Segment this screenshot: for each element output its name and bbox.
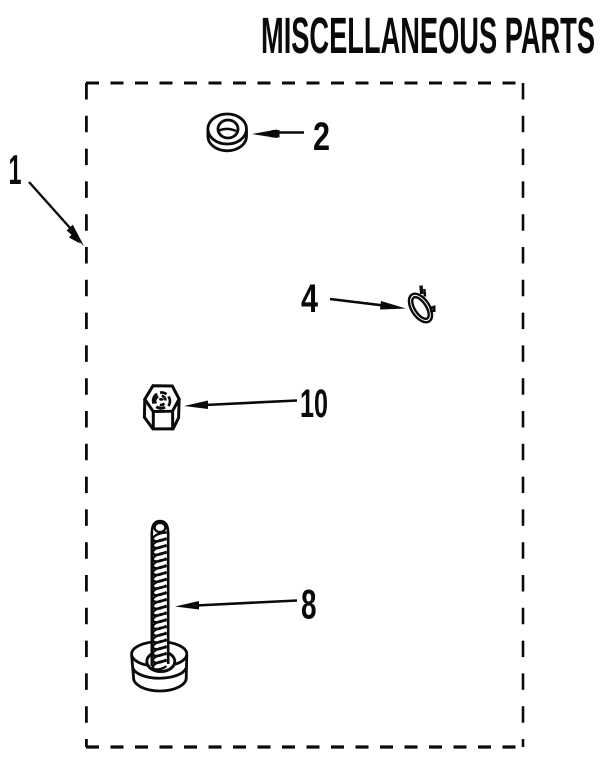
part 2 washer grommet <box>208 114 247 151</box>
washer at screw base <box>132 642 187 691</box>
arrow from label 4 to ring <box>330 299 406 310</box>
arrow from label 10 to hex nut <box>184 401 297 410</box>
arrow from label 8 to screw <box>175 601 297 610</box>
washer hole front rim over shaft <box>147 662 175 672</box>
arrow from label 1 to box <box>29 182 84 246</box>
screw shaft (covers washer hole back rim) <box>152 521 168 668</box>
svg-text:2: 2 <box>313 115 330 159</box>
part 4 retaining ring <box>404 286 437 327</box>
screw rounded tip <box>152 521 168 534</box>
svg-text:1: 1 <box>9 146 22 193</box>
threads <box>153 532 167 670</box>
arrow from label 2 to washer <box>252 130 304 139</box>
part 8 screw with washer <box>132 521 187 691</box>
svg-text:10: 10 <box>300 382 328 426</box>
dashed parts box border <box>86 83 524 747</box>
svg-text:4: 4 <box>301 277 319 321</box>
svg-text:8: 8 <box>301 581 317 628</box>
part 10 hex nut <box>144 386 179 429</box>
svg-text:MISCELLANEOUS PARTS: MISCELLANEOUS PARTS <box>261 7 595 64</box>
